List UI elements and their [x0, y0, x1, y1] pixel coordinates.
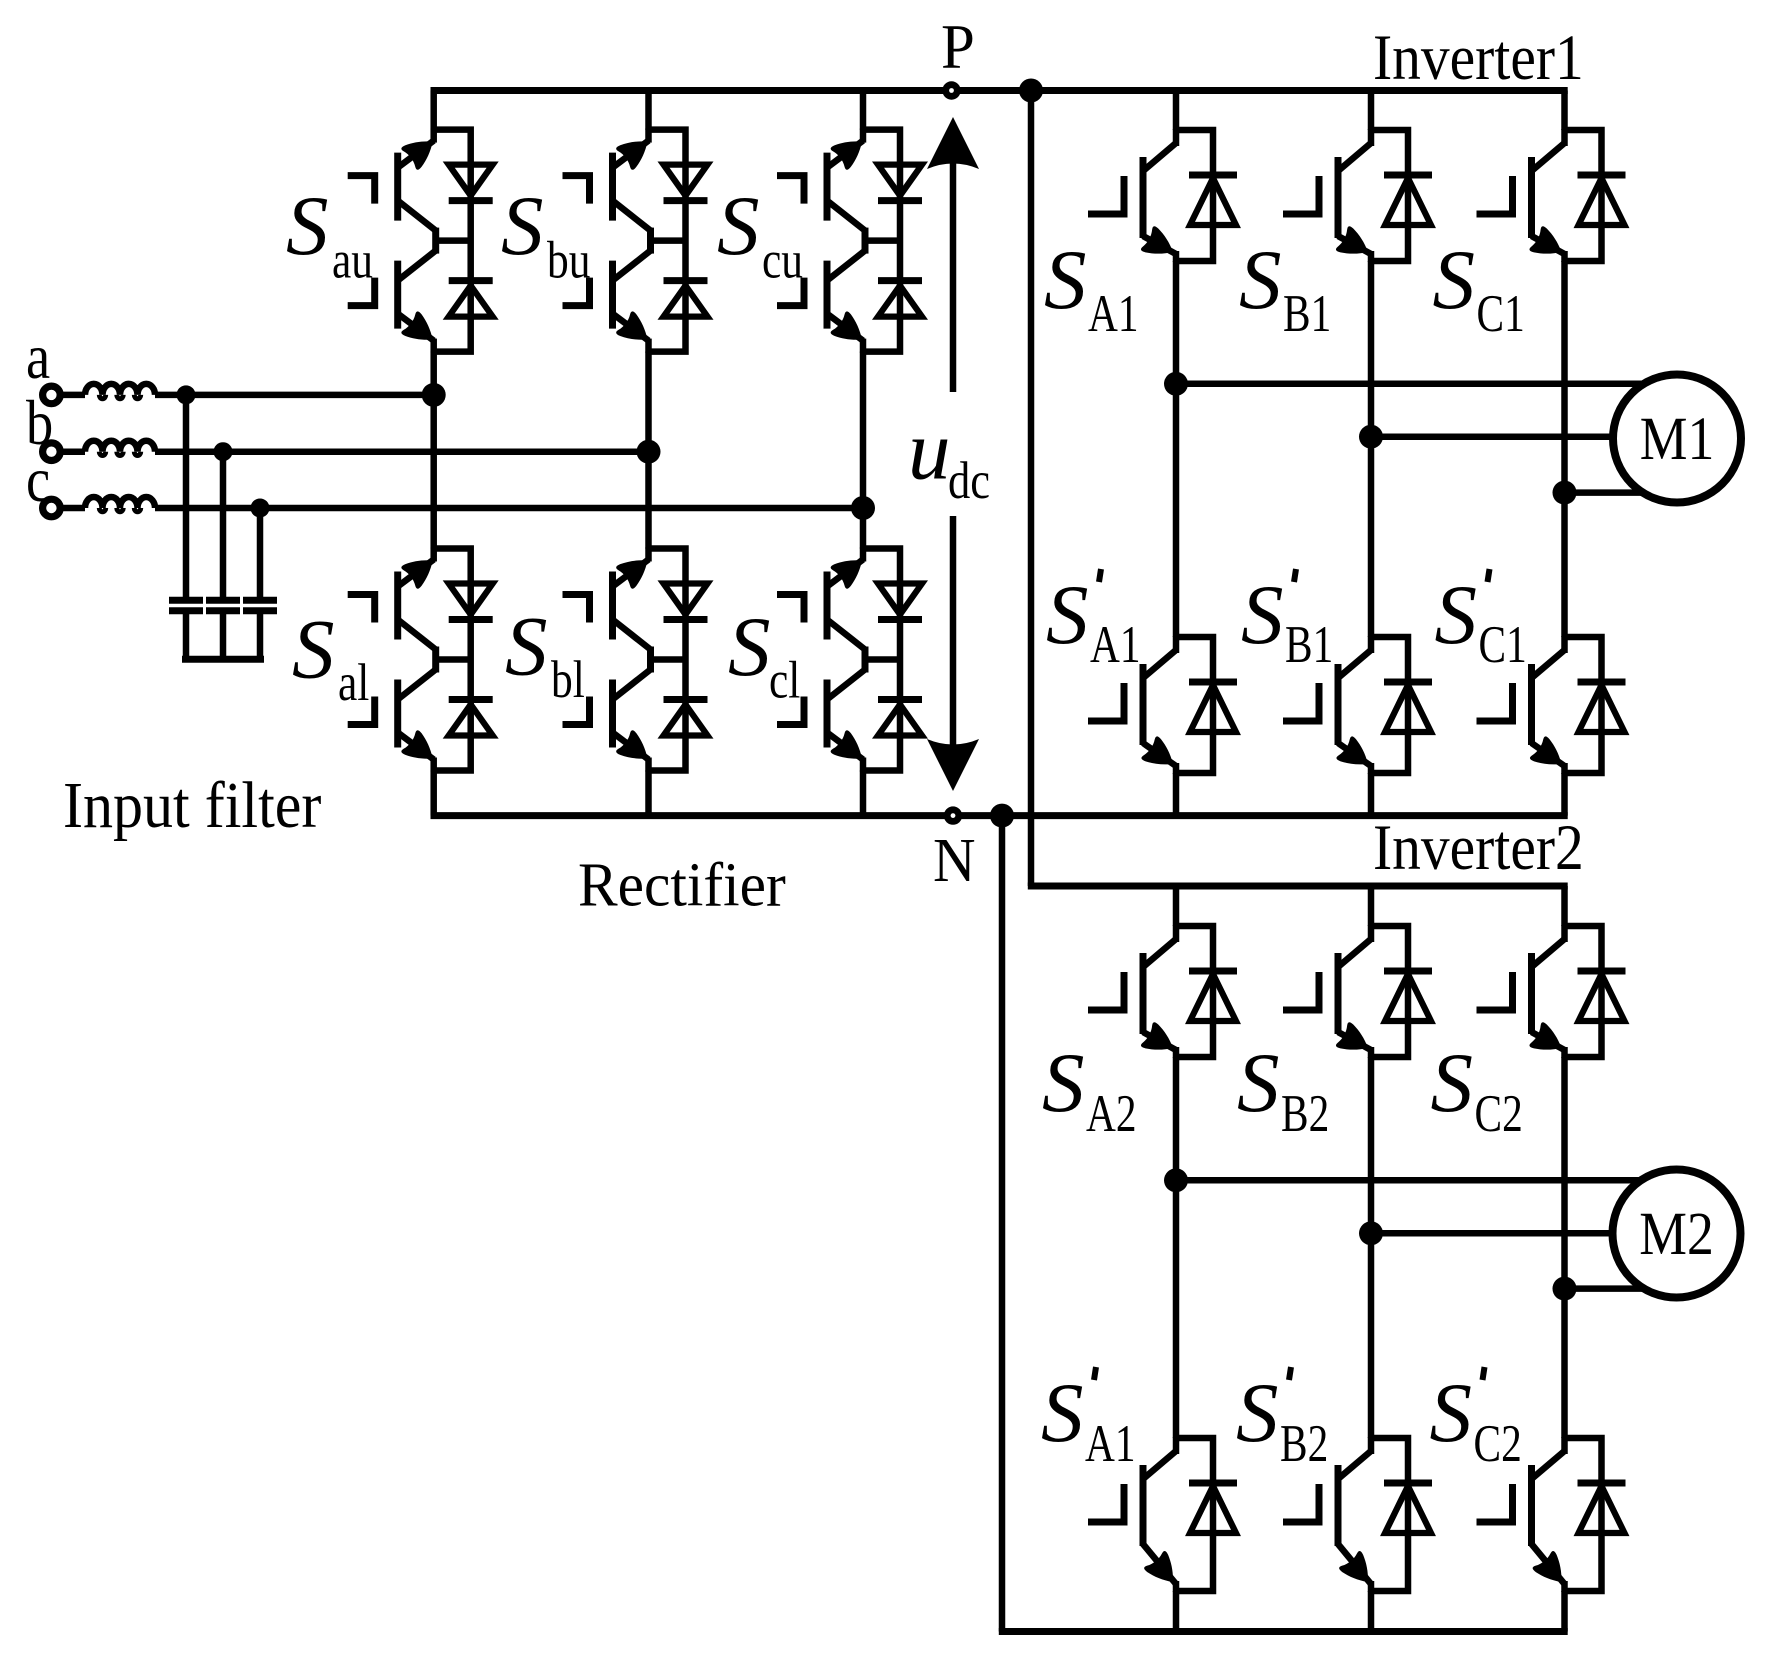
wire: diode branch (jog-branch-jog) of S_B2: [1371, 926, 1408, 1057]
wire: capacitor common bus bar: [182, 656, 264, 663]
wire: diode branch (jog-branch-jog) of S_bu: [649, 130, 686, 352]
common-collector stub / mid wire of S_bl: [647, 647, 654, 673]
wire: inverter1 leg C segments: [1561, 91, 1568, 131]
gate of lower IGBT S_al: [348, 697, 375, 725]
voltage arrow u_dc: [927, 117, 979, 791]
freewheeling diode of S'_A1 (lower) (conducts up): [1189, 1480, 1237, 1487]
wire: leg stubs of S_cl: [860, 548, 867, 562]
wire: leg stubs of S_bu: [645, 129, 652, 143]
svg-text:cu: cu: [762, 231, 803, 289]
svg-text:C2: C2: [1475, 1085, 1523, 1143]
label S_C1: [1433, 233, 1525, 343]
wire: diode branch (jog-branch-jog) of S_C1: [1565, 130, 1602, 261]
gate of IGBT S'_C1: [1477, 683, 1513, 721]
gate of IGBT S_B2: [1283, 972, 1319, 1010]
svg-text:S: S: [1042, 1036, 1085, 1130]
label S_cl: [728, 600, 800, 710]
switch cell S'_C1: [1477, 636, 1626, 775]
common-collector stub / mid wire of S_au: [432, 228, 439, 254]
svg-text:B1: B1: [1283, 285, 1331, 343]
IGBT S_C2: [1561, 925, 1568, 942]
label S'_B1: [1241, 568, 1333, 674]
wire: rectifier leg c segments: [860, 91, 867, 130]
gate of upper IGBT S_bl: [563, 595, 590, 623]
motor M1: [1613, 375, 1741, 503]
svg-text:S: S: [1236, 1366, 1279, 1460]
svg-text:S: S: [1046, 568, 1089, 662]
freewheeling diode of S'_B2 (conducts up): [1384, 1480, 1432, 1487]
gate of IGBT S'_A1 (lower): [1088, 1484, 1124, 1522]
svg-text:bu: bu: [547, 231, 590, 289]
svg-text:S: S: [1237, 1036, 1280, 1130]
wire: capacitor Cb leads: [220, 452, 227, 601]
switch cell S_C2: [1477, 925, 1626, 1060]
bidirectional switch cell S_au: [348, 129, 493, 353]
gate of IGBT S_B1: [1283, 176, 1319, 214]
capacitor Cb: [206, 452, 240, 660]
switch cell S'_C2: [1477, 1437, 1626, 1592]
bidirectional switch cell S_bl: [563, 548, 708, 772]
wire: inverter1 leg B segments: [1368, 91, 1375, 131]
diode S_bu upper (conducts down): [664, 165, 708, 196]
wire: capacitor Cc leads: [257, 508, 264, 600]
gate of upper IGBT S_al: [348, 595, 375, 623]
diode S_cl lower (conducts up): [878, 696, 922, 703]
IGBT S_bu lower (emitter down): [613, 251, 651, 281]
label Input filter: [63, 768, 321, 841]
switch cell S_B1: [1283, 129, 1432, 264]
freewheeling diode of S'_C1 (conducts up): [1578, 679, 1626, 686]
svg-text:S: S: [286, 179, 329, 273]
freewheeling diode of S_A2 (conducts up): [1189, 968, 1237, 975]
gate of lower IGBT S_cu: [777, 278, 804, 306]
freewheeling diode of S_C2 (conducts up): [1578, 968, 1626, 975]
wire: leg stubs of S_al: [430, 548, 437, 562]
gate of lower IGBT S_bl: [563, 697, 590, 725]
junction dot: phase b / filter tap: [214, 442, 233, 461]
label S_C2: [1431, 1036, 1523, 1143]
motor M2: [1613, 1170, 1741, 1298]
svg-text:S: S: [1431, 1036, 1474, 1130]
wire: motor M1 phase A lead: [1176, 381, 1646, 388]
svg-text:S: S: [1041, 1366, 1084, 1460]
terminal a (open circle): [43, 386, 61, 404]
IGBT S_al lower (emitter down): [398, 670, 436, 700]
junction dot: phase c / filter tap: [251, 499, 270, 518]
label S_bl: [505, 600, 585, 710]
svg-text:Input filter: Input filter: [63, 768, 321, 841]
svg-text:bl: bl: [551, 651, 585, 709]
junction dot: inverter2 leg A midpoint: [1164, 1168, 1188, 1192]
IGBT S'_C2: [1561, 1437, 1568, 1454]
wire: phase b input segment: [61, 448, 86, 455]
junction dot: inverter1 leg B midpoint: [1359, 425, 1383, 449]
wire: diode branch (jog-branch-jog) of S_au: [434, 130, 471, 352]
wire: phase c input segment: [61, 505, 86, 512]
wire: phase c line to rectifier leg c: [155, 505, 863, 512]
switch cell S_C1: [1477, 129, 1626, 264]
svg-text:cl: cl: [769, 652, 800, 710]
junction dot: inverter1 leg A midpoint: [1164, 372, 1188, 396]
wire: diode branch (jog-branch-jog) of S_cu: [863, 130, 900, 352]
label S_al: [292, 603, 369, 713]
diode S_au upper (conducts down): [449, 165, 493, 196]
svg-text:C2: C2: [1474, 1415, 1522, 1473]
IGBT S_bl upper (emitter up): [613, 560, 649, 587]
wire: motor M2 phase C lead: [1565, 1285, 1645, 1292]
svg-text:S: S: [1433, 233, 1476, 327]
gate of upper IGBT S_cu: [777, 176, 804, 204]
wire: phase b line to rectifier leg b: [155, 448, 649, 455]
gate of IGBT S_C2: [1477, 972, 1513, 1010]
gate of IGBT S'_C2: [1477, 1484, 1513, 1522]
wire: inverter2 leg A segments: [1173, 886, 1180, 926]
gate of IGBT S_A2: [1088, 972, 1124, 1010]
svg-text:S: S: [1239, 233, 1282, 327]
switch cell S_A2: [1088, 925, 1237, 1060]
diode S_cl upper (conducts down): [878, 584, 922, 615]
wire: phase a line to rectifier leg a: [155, 392, 434, 399]
label S_A2: [1042, 1036, 1137, 1143]
junction dot: phase a at rectifier leg a: [422, 383, 446, 407]
diode S_au lower (conducts up): [449, 277, 493, 284]
label S'_B2 label: [1236, 1366, 1328, 1473]
switch cell S_B2: [1283, 925, 1432, 1060]
label S_cu: [717, 179, 803, 289]
freewheeling diode of S_B1 (conducts up): [1384, 172, 1432, 179]
wire: leg stubs of S_bl: [645, 548, 652, 562]
IGBT S_cl upper (emitter up): [827, 560, 863, 587]
svg-text:C1: C1: [1477, 285, 1525, 343]
svg-text:a: a: [26, 321, 50, 392]
inductor Lb: [85, 441, 155, 456]
label S'_C1: [1435, 568, 1527, 674]
label S_B2: [1237, 1036, 1329, 1143]
label node P: [941, 11, 975, 83]
svg-text:S: S: [292, 603, 335, 697]
diode S_bl lower (conducts up): [664, 696, 708, 703]
freewheeling diode of S_B2 (conducts up): [1384, 968, 1432, 975]
label Inverter1: [1373, 22, 1584, 94]
wire: diode branch (jog-branch-jog) of S'_C1: [1565, 637, 1602, 773]
IGBT S'_B2: [1368, 1437, 1375, 1454]
junction dot: phase a / filter tap: [177, 385, 196, 404]
node N (small terminal circle): [944, 806, 962, 824]
switch cell S'_A1 (lower): [1088, 1437, 1237, 1592]
wire: motor M1 phase B lead: [1371, 433, 1614, 440]
wire: motor M2 phase A lead: [1176, 1177, 1644, 1184]
wire: diode branch (jog-branch-jog) of S_A2: [1176, 926, 1213, 1057]
bidirectional switch cell S_cl: [777, 548, 922, 772]
freewheeling diode of S'_B1 (conducts up): [1384, 679, 1432, 686]
wire: leg stubs of S_au: [430, 129, 437, 143]
gate of lower IGBT S_cl: [777, 697, 804, 725]
wire: motor M2 phase B lead: [1371, 1230, 1613, 1237]
wire: Inverter2 top rail: [1028, 883, 1568, 890]
wire: diode branch (jog-branch-jog) of S_bl: [649, 549, 686, 771]
wire: diode branch (jog-branch-jog) of S_B1: [1371, 130, 1408, 261]
label terminal a: [26, 321, 50, 392]
bidirectional switch cell S_al: [348, 548, 493, 772]
wire: Inverter2 bottom rail: [999, 1628, 1568, 1635]
label node N: [933, 827, 976, 896]
svg-text:Rectifier: Rectifier: [578, 851, 786, 919]
junction dot: phase b at rectifier leg b: [637, 440, 661, 464]
diode S_bu lower (conducts up): [664, 277, 708, 284]
junction dot: N rail to Inverter2 drop: [990, 804, 1014, 828]
switch cell S'_A1: [1088, 636, 1237, 775]
gate of IGBT S'_B1: [1283, 683, 1319, 721]
wire: diode branch (jog-branch-jog) of S_al: [434, 549, 471, 771]
gate of upper IGBT S_cl: [777, 595, 804, 623]
label S'_A1: [1046, 568, 1141, 674]
IGBT S_al upper (emitter up): [398, 560, 434, 587]
wire: inverter2 leg B segments: [1368, 886, 1375, 926]
gate of upper IGBT S_bu: [563, 176, 590, 204]
svg-text:P: P: [941, 11, 975, 83]
IGBT S_C1: [1561, 129, 1568, 146]
IGBT S_au lower (emitter down): [398, 251, 436, 281]
wire: diode branch (jog-branch-jog) of S'_A1 (lower): [1176, 1438, 1213, 1591]
svg-text:A1: A1: [1085, 1415, 1136, 1473]
IGBT S_A1: [1173, 129, 1180, 146]
IGBT S_A2: [1173, 925, 1180, 942]
svg-text:dc: dc: [948, 451, 990, 511]
svg-text:A2: A2: [1086, 1085, 1137, 1143]
wire: phase a input segment: [61, 392, 86, 399]
freewheeling diode of S'_C2 (conducts up): [1578, 1480, 1626, 1487]
bidirectional switch cell S_bu: [563, 129, 708, 353]
wire: motor M1 phase C lead: [1565, 489, 1645, 496]
wire: diode branch (jog-branch-jog) of S_cl: [863, 549, 900, 771]
capacitor Ca: [169, 395, 203, 659]
wire: rectifier leg b segments: [645, 91, 652, 130]
label S_B1: [1239, 233, 1331, 343]
common-collector stub / mid wire of S_cl: [862, 647, 869, 673]
wire: leg stubs of S_cu: [860, 129, 867, 143]
switch cell S'_B1: [1283, 636, 1432, 775]
diode S_cu upper (conducts down): [878, 165, 922, 196]
bidirectional switch cell S_cu: [777, 129, 922, 353]
wire: inverter1 leg A segments: [1173, 91, 1180, 131]
svg-text:B2: B2: [1280, 1415, 1328, 1473]
common-collector stub / mid wire of S_al: [432, 647, 439, 673]
gate of IGBT S'_A1: [1088, 683, 1124, 721]
switch cell S_A1: [1088, 129, 1237, 264]
label terminal b: [26, 387, 53, 458]
IGBT S'_A1: [1173, 636, 1180, 653]
svg-text:M2: M2: [1639, 1201, 1714, 1268]
svg-text:S: S: [717, 179, 760, 273]
svg-text:S: S: [505, 600, 548, 694]
svg-text:Inverter1: Inverter1: [1373, 22, 1584, 94]
gate of IGBT S'_B2: [1283, 1484, 1319, 1522]
terminal b (open circle): [43, 443, 61, 461]
wire: diode branch (jog-branch-jog) of S'_B2: [1371, 1438, 1408, 1591]
wire: diode branch (jog-branch-jog) of S_C2: [1565, 926, 1602, 1057]
svg-text:al: al: [338, 654, 369, 712]
label terminal c: [26, 444, 50, 515]
diode S_al upper (conducts down): [449, 584, 493, 615]
IGBT S_B2: [1368, 925, 1375, 942]
switch cell S'_B2: [1283, 1437, 1432, 1592]
capacitor Cc: [243, 508, 277, 659]
IGBT S'_C1: [1561, 636, 1568, 653]
IGBT S_cu lower (emitter down): [827, 251, 865, 281]
label S_au: [286, 179, 373, 289]
diode S_al lower (conducts up): [449, 696, 493, 703]
label S'_C2 label: [1430, 1366, 1522, 1473]
svg-text:S: S: [1430, 1366, 1473, 1460]
IGBT S_au upper (emitter up): [398, 141, 434, 168]
wire: capacitor Ca leads: [183, 395, 190, 600]
IGBT S_bl lower (emitter down): [613, 670, 651, 700]
gate of IGBT S_A1: [1088, 176, 1124, 214]
svg-text:au: au: [332, 231, 373, 289]
gate of upper IGBT S_au: [348, 176, 375, 204]
wire: DC positive top rail (P net): [431, 87, 1568, 94]
wire: rectifier leg a segments: [430, 91, 437, 130]
svg-text:B2: B2: [1281, 1085, 1329, 1143]
IGBT S_cl lower (emitter down): [827, 670, 865, 700]
common-collector stub / mid wire of S_cu: [862, 228, 869, 254]
label Inverter2: [1373, 812, 1584, 884]
junction dot: P rail to Inverter2 drop: [1019, 79, 1043, 103]
label u_dc: [908, 404, 990, 510]
diode S_cu lower (conducts up): [878, 277, 922, 284]
svg-text:B1: B1: [1285, 616, 1333, 674]
svg-text:A1: A1: [1090, 616, 1141, 674]
wire: inverter2 leg C segments: [1561, 886, 1568, 926]
label S_bu: [501, 179, 590, 289]
junction dot: phase c at rectifier leg c: [851, 496, 875, 520]
junction dot: inverter2 leg C midpoint: [1553, 1277, 1577, 1301]
svg-text:Inverter2: Inverter2: [1373, 812, 1584, 884]
wire: P-net vertical drop to Inverter2: [1028, 91, 1035, 887]
svg-text:S: S: [501, 179, 544, 273]
label S_A1: [1044, 233, 1139, 343]
label Rectifier: [578, 851, 786, 919]
svg-text:N: N: [933, 827, 976, 896]
wire: diode branch (jog-branch-jog) of S'_C2: [1565, 1438, 1602, 1591]
label S'_A1 label: [1041, 1366, 1136, 1473]
gate of lower IGBT S_bu: [563, 278, 590, 306]
inductor Lc: [85, 497, 155, 512]
svg-text:S: S: [1241, 568, 1284, 662]
svg-text:u: u: [908, 404, 951, 498]
wire: diode branch (jog-branch-jog) of S'_A1: [1176, 637, 1213, 773]
node P (small terminal circle): [942, 81, 960, 99]
wire: DC negative rail (N net): [431, 812, 1568, 819]
wire: N-net vertical drop to Inverter2: [999, 816, 1006, 1632]
IGBT S'_A1 (lower): [1173, 1437, 1180, 1454]
svg-text:S: S: [728, 600, 771, 694]
plates of capacitor Cc: [243, 597, 277, 604]
terminal c (open circle): [43, 499, 61, 517]
svg-text:S: S: [1044, 233, 1087, 327]
freewheeling diode of S_A1 (conducts up): [1189, 172, 1237, 179]
inductor La: [85, 384, 155, 399]
IGBT S'_B1: [1368, 636, 1375, 653]
gate of lower IGBT S_au: [348, 278, 375, 306]
diode S_bl upper (conducts down): [664, 584, 708, 615]
wire: diode branch (jog-branch-jog) of S'_B1: [1371, 637, 1408, 773]
freewheeling diode of S'_A1 (conducts up): [1189, 679, 1237, 686]
IGBT S_cu upper (emitter up): [827, 141, 863, 168]
svg-text:M1: M1: [1640, 406, 1715, 473]
freewheeling diode of S_C1 (conducts up): [1578, 172, 1626, 179]
plates of capacitor Ca: [169, 597, 203, 604]
plates of capacitor Cb: [206, 597, 240, 604]
gate of IGBT S_C1: [1477, 176, 1513, 214]
junction dot: inverter1 leg C midpoint: [1553, 481, 1577, 505]
junction dot: inverter2 leg B midpoint: [1359, 1221, 1383, 1245]
svg-text:S: S: [1435, 568, 1478, 662]
svg-text:C1: C1: [1479, 616, 1527, 674]
IGBT S_B1: [1368, 129, 1375, 146]
svg-text:A1: A1: [1088, 285, 1139, 343]
common-collector stub / mid wire of S_bu: [647, 228, 654, 254]
wire: diode branch (jog-branch-jog) of S_A1: [1176, 130, 1213, 261]
IGBT S_bu upper (emitter up): [613, 141, 649, 168]
